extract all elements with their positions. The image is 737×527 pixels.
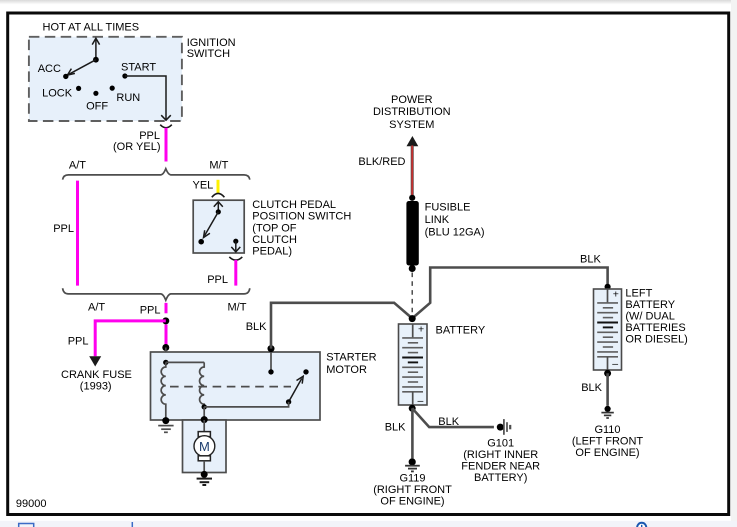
label G110 (LEFT FRONT OF ENGINE) [572, 424, 644, 459]
ignition wiper arm to ACC [67, 60, 96, 75]
wire coil2 to motor [203, 407, 205, 420]
svg-text:M: M [199, 439, 210, 454]
arrow to power distribution [407, 136, 419, 146]
node START [122, 73, 127, 78]
node battery negative [409, 405, 416, 412]
battery [399, 323, 428, 406]
svg-text:PEDAL): PEDAL) [252, 246, 292, 258]
svg-text:–: – [612, 358, 618, 370]
svg-text:99000: 99000 [16, 498, 47, 510]
svg-text:STARTER: STARTER [326, 352, 376, 364]
svg-text:(OR YEL): (OR YEL) [113, 141, 160, 153]
ground G119 [405, 466, 420, 472]
wire BLK to G119 [411, 408, 414, 458]
label STARTER MOTOR [326, 352, 376, 377]
solenoid linkage (dashed) [170, 386, 291, 388]
connector cap (clutch input) [212, 193, 225, 197]
svg-text:LINK: LINK [425, 214, 450, 226]
wire motor to ground [203, 461, 205, 475]
node BLK top of starter [268, 345, 275, 352]
motor M1 [194, 436, 215, 457]
svg-text:FENDER NEAR: FENDER NEAR [461, 461, 540, 473]
arrow to crank fuse [89, 356, 101, 366]
left battery [594, 288, 622, 370]
svg-text:PPL: PPL [207, 274, 228, 286]
clutch switch arm [204, 212, 219, 238]
svg-text:BATTERY: BATTERY [436, 324, 486, 336]
svg-text:BLK/RED: BLK/RED [358, 156, 405, 168]
motor box [183, 420, 227, 473]
svg-text:G119: G119 [399, 473, 425, 485]
label LEFT BATTERY (W/ DUAL BATTERIES OR DIESEL) [625, 287, 687, 345]
node RUN [110, 86, 115, 91]
wire PPL M/T branch [234, 260, 237, 286]
svg-text:PPL: PPL [140, 304, 161, 316]
wire PPL A/T branch [76, 181, 79, 286]
svg-text:BLK: BLK [580, 253, 601, 265]
node LOCK [76, 86, 81, 91]
svg-text:(W/ DUAL: (W/ DUAL [625, 310, 675, 322]
svg-text:RUN: RUN [116, 92, 140, 104]
svg-text:PPL: PPL [68, 336, 89, 348]
svg-text:M/T: M/T [228, 302, 247, 314]
svg-text:HOT AT ALL TIMES: HOT AT ALL TIMES [43, 22, 140, 34]
wire PPL to crank fuse [95, 321, 166, 356]
motor brush top [198, 432, 210, 437]
wire to brush [203, 420, 205, 432]
wire BLK/RED [411, 146, 414, 198]
node switch pivot [286, 399, 291, 404]
label FUSIBLE LINK (BLU 12GA) [425, 202, 485, 239]
node coil2 bottom [202, 404, 207, 409]
svg-text:LEFT: LEFT [625, 287, 652, 299]
svg-text:G101: G101 [487, 438, 514, 450]
svg-text:DISTRIBUTION: DISTRIBUTION [373, 106, 451, 118]
label PPL (OR YEL) [113, 130, 160, 153]
svg-text:(RIGHT FRONT: (RIGHT FRONT [373, 484, 452, 496]
wire link coils [166, 361, 204, 363]
svg-text:POWER: POWER [391, 94, 433, 106]
fusible link [406, 201, 418, 266]
label IGNITION SWITCH [187, 37, 236, 60]
node fusible link bottom [409, 265, 416, 272]
node motor ground [201, 471, 208, 478]
node battery positive [409, 315, 416, 322]
node coil1 ground [162, 417, 169, 424]
svg-text:SYSTEM: SYSTEM [389, 119, 434, 131]
ground (starter solenoid) [158, 426, 173, 433]
svg-text:BATTERY: BATTERY [625, 299, 675, 311]
starter motor box [151, 352, 321, 420]
motor brush bottom [198, 456, 210, 461]
label CLUTCH PEDAL POSITION SWITCH [252, 199, 351, 258]
svg-text:MOTOR: MOTOR [326, 364, 367, 376]
svg-text:SWITCH: SWITCH [187, 48, 230, 60]
ground G101 (chassis) [504, 419, 510, 435]
svg-text:BATTERIES: BATTERIES [625, 322, 685, 334]
wire into starter box [165, 348, 167, 363]
svg-text:OR DIESEL): OR DIESEL) [625, 333, 687, 345]
wire BLK starter to battery [271, 303, 412, 349]
connector cup PPL [160, 125, 172, 128]
node clutch lower-left [198, 239, 204, 245]
node G119 [409, 458, 416, 465]
svg-text:OF ENGINE): OF ENGINE) [380, 496, 444, 508]
node G101 [497, 424, 504, 431]
svg-text:LOCK: LOCK [42, 88, 73, 100]
wire PPL dashed segment [165, 303, 168, 313]
svg-text:CLUTCH: CLUTCH [252, 234, 297, 246]
label POWER DISTRIBUTION SYSTEM [373, 94, 451, 131]
clutch output arrow [231, 241, 240, 252]
svg-text:(1993): (1993) [80, 380, 112, 392]
wire BLK battery to left battery [412, 268, 607, 319]
wire START output [125, 76, 171, 120]
svg-text:POSITION SWITCH: POSITION SWITCH [252, 211, 351, 223]
svg-text:YEL: YEL [193, 180, 214, 192]
connector cup (clutch output) [229, 257, 242, 260]
node clutch top [216, 209, 221, 214]
wire pivot to coil2 [204, 402, 288, 407]
node ACC contact [63, 74, 68, 79]
node motor top [201, 416, 208, 423]
svg-text:BLK: BLK [438, 416, 459, 428]
wire BLK drop into box [270, 349, 272, 372]
svg-text:START: START [121, 61, 156, 73]
svg-text:+: + [418, 323, 424, 335]
node G110 [605, 406, 611, 412]
node coil top left [163, 360, 168, 365]
svg-text:BLK: BLK [246, 321, 267, 333]
wire PPL into starter [165, 325, 168, 348]
svg-text:BLK: BLK [385, 422, 406, 434]
node PPL at starter [162, 344, 169, 351]
clutch switch input arrow [214, 202, 223, 212]
solenoid coil 1 [161, 362, 166, 421]
node clutch output [233, 239, 238, 244]
svg-text:G110: G110 [594, 424, 620, 436]
label G101 (RIGHT INNER FENDER NEAR BATTERY) [461, 438, 540, 485]
node left battery negative [604, 370, 611, 377]
svg-text:A/T: A/T [69, 159, 86, 171]
wire ignition feed (up arrow to HOT) [92, 38, 99, 60]
wire BLK to G110 [606, 373, 609, 406]
node left battery positive [605, 284, 611, 290]
solenoid switch arm [289, 376, 304, 402]
svg-text:–: – [418, 395, 424, 407]
clutch pedal position switch box [193, 200, 244, 253]
brace split A/T M/T [63, 169, 250, 180]
wire PPL (OR YEL) [165, 128, 168, 162]
label CRANK FUSE (1993) [61, 369, 132, 392]
svg-text:(RIGHT INNER: (RIGHT INNER [463, 449, 538, 461]
svg-text:(BLU 12GA): (BLU 12GA) [425, 226, 485, 238]
wire YEL [217, 180, 220, 194]
node ignition pivot [93, 57, 99, 63]
svg-text:OF ENGINE): OF ENGINE) [575, 447, 639, 459]
svg-text:FUSIBLE: FUSIBLE [425, 202, 471, 214]
svg-text:(TOP OF: (TOP OF [252, 222, 296, 234]
svg-text:BLK: BLK [581, 382, 602, 394]
solenoid coil 2 [200, 362, 205, 407]
node OFF [93, 91, 98, 96]
node solenoid contact [303, 369, 308, 374]
svg-text:CLUTCH PEDAL: CLUTCH PEDAL [252, 199, 336, 211]
brace merge A/T M/T [63, 288, 250, 300]
dashed link to battery [411, 273, 413, 316]
ignition switch box [29, 37, 182, 121]
svg-text:(LEFT FRONT: (LEFT FRONT [572, 436, 644, 448]
svg-text:M/T: M/T [209, 159, 228, 171]
svg-text:ACC: ACC [38, 63, 61, 75]
svg-text:PPL: PPL [53, 223, 74, 235]
wire BLK to G101 [412, 408, 494, 427]
svg-text:BATTERY): BATTERY) [474, 472, 527, 484]
ground (motor) [197, 479, 212, 485]
label G119 (RIGHT FRONT OF ENGINE) [373, 473, 452, 508]
ground G110 [601, 413, 613, 418]
svg-text:OFF: OFF [86, 100, 108, 112]
node fusible link top [409, 195, 415, 201]
node PPL junction [162, 317, 169, 324]
svg-text:+: + [613, 288, 619, 300]
svg-text:A/T: A/T [88, 302, 105, 314]
node BLK in box [268, 369, 273, 374]
